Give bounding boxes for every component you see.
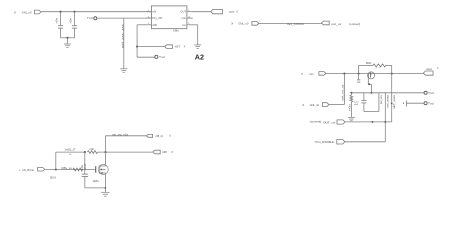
svg-text:n0n: n0n (70, 17, 73, 24)
wire branch to port P3 (137, 46, 165, 48)
wire gate input horizontal (45, 169, 96, 171)
wire U1 GND pin left and down (137, 25, 146, 57)
junction main rail / resistor loop left (358, 73, 360, 75)
svg-text:(current): (current) (310, 121, 322, 124)
wire loop top right segment (386, 64, 392, 66)
svg-text:GND: GND (152, 25, 157, 27)
junction at C2 top (73, 11, 75, 13)
port P5 label out_ux (331, 22, 342, 26)
port P9 n08_n0 with label (146, 134, 171, 138)
wire2 horizontal left segment (56, 151, 86, 153)
capacitor C1 (58, 12, 63, 38)
capacitor C3 branch (361, 93, 366, 112)
wire main rail IN to nout port (326, 73, 424, 75)
power flag Tnd2 with label (424, 101, 434, 105)
M2 pin number marks (376, 68, 380, 70)
svg-text:X: X (14, 10, 16, 14)
junction loop-right / cap branch (391, 103, 393, 105)
svg-text:GNL_n0: GNL_n0 (22, 10, 32, 14)
wire U1 right pin 6 to ground (192, 25, 198, 45)
svg-text:net_xxx: net_xxx (380, 94, 383, 104)
svg-text:Tnd: Tnd (428, 101, 434, 105)
resistor R2 (horizontal zigzag) (373, 64, 386, 67)
net label net_XXXnn on wire (287, 22, 305, 26)
junction gate wire / wire2 riser (55, 168, 57, 170)
svg-text:net_xxxx: net_xxxx (386, 94, 389, 108)
net label (rotated) on GNL riser (342, 84, 345, 101)
wire2 net label 1n0_17 (64, 148, 76, 151)
svg-text:nN: nN (152, 12, 156, 14)
svg-text:GNL_n0: GNL_n0 (238, 22, 248, 26)
svg-text:U8x: U8x (173, 29, 179, 32)
port P1 GNL_n0 (left input) with label (14, 10, 41, 14)
U1 pin name PLn_nST (152, 18, 163, 20)
svg-text:PLn_nST: PLn_nST (152, 18, 163, 20)
svg-text:net_xx_xx: net_xx_xx (342, 84, 345, 101)
wire GNL_n0 to out_ux (259, 22, 322, 24)
net label (rotated) on right vertical (393, 94, 396, 109)
U1 pin name VIN (152, 12, 156, 14)
capacitor C2a on IN rail (357, 74, 360, 83)
wire GNL_n0 riser vertical (343, 74, 345, 105)
svg-text:3: 3 (148, 16, 149, 18)
svg-text:Tnd: Tnd (159, 55, 165, 59)
svg-text:X: X (169, 134, 171, 138)
svg-text:6: 6 (188, 23, 189, 25)
U1 pin name OUT (right) (181, 12, 187, 14)
junction at node nST branch (136, 46, 138, 48)
svg-text:n0_8nnn: n0_8nnn (22, 168, 34, 172)
power flag PWR2 (Tnd) with label (155, 55, 166, 59)
junction at C1 top (59, 11, 61, 13)
wire C3 bottom loop horizontal (364, 111, 379, 113)
wire stem to ground G1 (67, 38, 69, 44)
svg-text:B0.9: B0.9 (50, 176, 56, 180)
ground G3 (194, 45, 201, 48)
svg-text:X: X (301, 72, 303, 76)
svg-text:Tnd: Tnd (428, 91, 434, 95)
svg-text:n0nF: n0nF (354, 104, 359, 106)
net label net_xxx_n0 on wire1 (112, 133, 129, 136)
wire GNLr port to riser (329, 104, 344, 106)
power flag Tnd1 with label (424, 91, 434, 95)
wire OUT_ux horizontal (345, 121, 392, 123)
svg-text:R8x: R8x (366, 62, 373, 65)
svg-text:OUT: OUT (181, 12, 187, 14)
svg-text:1n0Ω_17: 1n0Ω_17 (64, 148, 76, 151)
resistor R4 value label (62, 167, 73, 170)
U1 pin name nnn (right) (181, 18, 186, 20)
U1 pin number 5 (right) (188, 10, 189, 12)
capacitor C5 labels (rotated) (82, 163, 87, 170)
label B0.9 (50, 176, 56, 180)
junction at C1/C2 tie midpoint (66, 37, 68, 39)
wire power flag to U1 pin PLn_nST (97, 17, 152, 19)
svg-text:2: 2 (148, 23, 149, 25)
M2 gate wire down (368, 78, 371, 85)
resistor R5 label (90, 148, 95, 151)
wire loop right vertical down to OUT wire (391, 65, 393, 122)
port P2 label INT X (229, 10, 238, 14)
port OUT_ux (337, 120, 345, 124)
svg-text:n0n: n0n (56, 17, 59, 24)
U1 right pin 4 no-connect mark (192, 17, 194, 20)
capacitor C5 vertical branch (82, 152, 88, 188)
svg-text:n0n: n0n (349, 103, 352, 110)
ground G2 (120, 69, 127, 72)
capacitor C2 (72, 12, 77, 38)
svg-text:nST: nST (175, 45, 181, 49)
svg-text:nout: nout (426, 67, 432, 71)
svg-text:5: 5 (188, 10, 189, 12)
wire U1 OUT to port P2 (192, 11, 211, 13)
wire2 value label 1n (69, 154, 72, 156)
wire1 horizontal to port (105, 135, 146, 137)
svg-text:(uxnet): (uxnet) (349, 22, 360, 26)
resistor R4 (horizontal zigzag) (73, 168, 83, 171)
resistor R2 label (366, 62, 373, 65)
wire loop top left segment (359, 64, 373, 66)
svg-text:n08_n0: n08_n0 (156, 134, 164, 138)
wire DISABLE horizontal (345, 141, 386, 143)
wire2 riser vertical (55, 152, 57, 169)
U1 pin number 3 (left) (148, 16, 149, 18)
junction wire2 / drain vertical (104, 151, 106, 153)
U1 pin number 6 (right) (188, 23, 189, 25)
port P8 n0_8nnn with label (19, 168, 45, 173)
capacitor C1 value label (56, 17, 59, 24)
port P7 nout with labels (423, 67, 439, 75)
op-amp/regulator U1 box with pin stubs (146, 6, 192, 29)
port GNLr GNL_n0 with label (302, 103, 329, 108)
svg-text:nET_xxxx: nET_xxxx (393, 94, 396, 109)
wire drain vertical up (104, 136, 106, 166)
port P10 n08 with label (153, 150, 174, 154)
port OUT_ux labels (310, 121, 336, 125)
svg-text:Tnd: Tnd (87, 16, 94, 20)
port P2 INT (output) (211, 9, 223, 13)
junction rail / pulldown resistor (350, 92, 352, 94)
port DISABLE label (314, 140, 334, 144)
ground G6 (101, 192, 109, 196)
ground G4 (348, 117, 355, 120)
net label net_xxx_xx (rotated) (120, 23, 124, 48)
wire bottom horizontal (cap to source) (85, 187, 106, 189)
svg-text:net_XXXnn: net_XXXnn (287, 22, 305, 26)
junction gate net / rail (370, 92, 372, 94)
svg-text:n: n (379, 68, 380, 70)
junction M2 gate node (368, 83, 370, 85)
svg-text:X: X (171, 150, 173, 154)
wire vertical net stub with rotated net label (123, 18, 125, 69)
svg-text:X: X (236, 10, 238, 14)
junction main rail / loop right (391, 73, 393, 75)
svg-text:77nn_DISABLE: 77nn_DISABLE (314, 140, 334, 144)
power flag VDD (Tnd) feeding U1 pin 3 with label (87, 16, 97, 20)
net label (rotated) on DISABLE riser (386, 94, 389, 108)
svg-text:net_xxx_n0x: net_xxx_n0x (112, 133, 129, 136)
svg-text:n0nF: n0nF (85, 163, 87, 170)
port P4 GNL_n0 with label (231, 22, 259, 26)
wire net GNL_n0 horizontal to U1 pin VIN (41, 11, 152, 13)
svg-text:out_ux: out_ux (331, 22, 342, 26)
wire loop left vertical (358, 65, 360, 73)
port DISABLE (337, 140, 345, 144)
svg-text:n08: n08 (162, 150, 167, 154)
wire loop return vertical (378, 93, 380, 112)
svg-text:R8x_xx: R8x_xx (62, 167, 73, 170)
junction main rail / GNL riser (343, 73, 345, 75)
port P3 label (175, 45, 186, 49)
sheet label A2 (195, 52, 204, 61)
port P6 in with label (301, 72, 326, 77)
wire gate net vertical down to rail (371, 84, 373, 93)
U1 pin number 2 (left) (148, 23, 149, 25)
wire2 right segment to port (98, 151, 153, 153)
junction wire2 / capacitor C5 (84, 151, 86, 153)
capacitor C4 (series, to Tnd) (403, 101, 424, 107)
svg-text:X: X (231, 22, 233, 26)
resistor R5 (horizontal zigzag on wire2) (88, 151, 98, 154)
net label (rotated) on return vertical (380, 94, 383, 104)
resistor R3 (vertical) gate pulldown (350, 93, 353, 118)
wire joining C1 and C2 bottoms (61, 37, 75, 39)
Q8x reference label (93, 180, 100, 183)
port P3 nST (165, 45, 173, 49)
svg-text:OUT_ux: OUT_ux (323, 121, 336, 125)
svg-text:A2: A2 (195, 52, 204, 61)
wire DISABLE riser vertical (384, 93, 386, 142)
junction on OUT_ux wire (371, 121, 373, 123)
svg-text:in: in (309, 72, 314, 76)
svg-text:1: 1 (148, 10, 149, 12)
capacitor C3 labels (354, 101, 359, 106)
port P5 note (uxnet) (349, 22, 360, 26)
U1 pin number 1 (left) (148, 10, 149, 12)
wire gate rail horizontal (351, 92, 424, 94)
junction bottom wire / ground stem (105, 187, 107, 189)
wire to power flag PWR2 (137, 56, 155, 58)
svg-text:net_xxx_xxx: net_xxx_xxx (120, 23, 124, 48)
U1 reference label U8x (173, 29, 179, 32)
svg-text:INT: INT (229, 10, 234, 14)
svg-text:X: X (302, 103, 304, 107)
transistor Q8x (NMOS) (96, 165, 109, 175)
svg-text:n0n: n0n (90, 148, 95, 151)
svg-text:n: n (376, 68, 377, 70)
resistor R3 label (rotated) (349, 103, 352, 110)
transistor M2 (PMOS pass FET) (368, 72, 375, 79)
capacitor C2 value label (70, 17, 73, 24)
port P5 out_ux (321, 21, 329, 25)
U1 pin name nn (right) (182, 25, 187, 27)
svg-text:GNL_n0: GNL_n0 (310, 103, 320, 107)
U1 pin name GND (152, 25, 157, 27)
U1 pin number 4 (right) (188, 16, 190, 19)
ground G1 (64, 44, 71, 47)
wire source vertical down (104, 173, 106, 192)
junction DISABLE riser / OUT wire (384, 121, 386, 123)
